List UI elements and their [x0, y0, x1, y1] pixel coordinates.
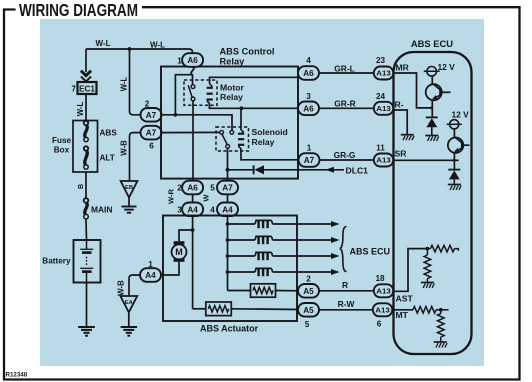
motor relay dashed box [184, 80, 217, 105]
wire motor relay coil to A6-4 [210, 77, 299, 84]
svg-text:5: 5 [305, 320, 310, 329]
node junction W-L rail [128, 47, 132, 51]
ABS control relay box [161, 67, 298, 179]
svg-text:ABS ECU: ABS ECU [411, 38, 453, 49]
svg-text:A6: A6 [187, 184, 198, 193]
pin 2 label A7 [145, 100, 150, 109]
connector A7 pin 1 [299, 153, 320, 167]
svg-text:Solenoid: Solenoid [252, 127, 288, 137]
svg-text:23: 23 [376, 56, 386, 65]
wire R-W row [319, 309, 374, 311]
transistor Q1 [426, 84, 451, 117]
arrow L4 to ECU [331, 269, 340, 275]
label W-L left [96, 39, 111, 48]
ground point EB triangle [121, 181, 138, 206]
svg-text:R-: R- [395, 100, 404, 110]
connector A13 pin 6 [373, 303, 393, 316]
wire R- to ground [394, 110, 408, 134]
ground R4 [421, 283, 434, 289]
connector A6 pin 4 [298, 66, 319, 80]
svg-text:A4: A4 [222, 205, 233, 214]
label W-R vertical [167, 188, 176, 204]
label GR-G [334, 150, 356, 160]
pin 5 label A7-5 [210, 184, 215, 193]
solenoid relay coil [238, 130, 244, 148]
brace ABS ECU arrows [340, 227, 347, 272]
wire solenoid coil to A6-3 junction [240, 109, 242, 130]
connector A4 pin 3 [182, 203, 203, 217]
transistor Q2 [448, 138, 470, 170]
svg-text:W: W [202, 194, 211, 202]
pin 3 label A6-3 [306, 92, 311, 101]
resistor R4 vertical [424, 249, 431, 282]
label W-L rail vertical [119, 76, 128, 91]
svg-text:Battery: Battery [42, 256, 71, 265]
battery cells [80, 240, 93, 283]
label W-B vertical upper [119, 140, 128, 156]
arrow from DLC1 [326, 167, 335, 173]
wire diode to DLC1 [264, 169, 344, 171]
connector A7 pin 5 [217, 181, 238, 195]
svg-text:12 V: 12 V [452, 110, 470, 120]
svg-text:1: 1 [177, 57, 182, 66]
pin 2 label A5-2 [306, 275, 311, 284]
pin 6 label A7 [149, 142, 154, 151]
label GR-L [334, 63, 354, 73]
label B vertical [78, 184, 85, 189]
svg-text:B: B [78, 184, 85, 189]
svg-text:R: R [342, 280, 348, 290]
svg-text:GR-G: GR-G [334, 150, 356, 160]
svg-text:A7: A7 [304, 156, 315, 165]
arrow L3 to ECU [331, 253, 340, 259]
svg-text:A6: A6 [303, 104, 314, 113]
label Motor Relay [220, 83, 245, 103]
wire MR to Q1 emitter [394, 73, 434, 109]
connector A5 pin 2 [298, 284, 319, 298]
ground battery [78, 327, 95, 336]
svg-text:EB: EB [125, 185, 133, 191]
wire diode branch [228, 169, 253, 171]
wire A4-4 rail down [227, 216, 229, 291]
svg-text:A4: A4 [187, 205, 198, 214]
label GR-R [334, 98, 355, 108]
wire motor switch to A6-2 [192, 101, 194, 181]
figure number R12348 [6, 372, 28, 379]
ground Q2 diode [448, 185, 461, 191]
label ABS ECU brace [350, 246, 391, 256]
pin 18 label [375, 274, 385, 283]
svg-text:2: 2 [177, 184, 182, 193]
svg-text:Relay: Relay [220, 57, 246, 67]
svg-text:ALT: ALT [100, 154, 115, 163]
ground EA [121, 327, 138, 336]
supply 12V Q1 [424, 67, 440, 77]
wire A6-2 to A4-3 [192, 194, 194, 202]
label W vertical [202, 194, 211, 202]
motor relay switch [188, 85, 195, 101]
pin 11 label [376, 144, 385, 153]
svg-text:A13: A13 [376, 104, 391, 113]
label R- [395, 100, 404, 110]
fuse MAIN [84, 198, 89, 219]
svg-text:4: 4 [210, 206, 215, 215]
pin 4 label A6-4 [306, 56, 311, 65]
wire rail to resistor R2 [193, 308, 206, 310]
pin 4 label A4-4 [210, 206, 215, 215]
svg-text:MT: MT [396, 310, 409, 320]
wire A7 pin6 to EB ground [130, 133, 141, 181]
diagram blue background [40, 19, 484, 366]
wire A4-1 to EA ground [129, 275, 141, 296]
connector A4 pin 4 [217, 203, 238, 217]
wire squiggle below A6-1 [191, 67, 194, 75]
svg-text:W-L: W-L [76, 101, 85, 116]
fuse ALT [84, 146, 88, 169]
svg-text:MAIN: MAIN [91, 205, 112, 215]
svg-text:A7: A7 [222, 184, 233, 193]
wire A7-6 to solenoid switch [161, 131, 220, 133]
resistor R2 boxed [206, 302, 232, 316]
wire GR-G [320, 159, 375, 161]
label SR [395, 149, 408, 159]
connector arrow into EC1 [81, 71, 91, 82]
connector A7 pin 2 [141, 108, 162, 122]
svg-text:W-R: W-R [167, 188, 176, 204]
connector A13 pin 23 [374, 67, 394, 80]
label MAIN [91, 205, 112, 215]
svg-text:6: 6 [149, 142, 154, 151]
svg-text:MR: MR [396, 63, 410, 73]
pin 1 label A4-1 [148, 260, 153, 269]
pin 3 label A4-3 [177, 206, 182, 215]
connector EC1 pin 7 [72, 82, 97, 94]
connector A13 pin 11 [374, 154, 394, 167]
diode D2 Q1 emitter [426, 117, 438, 134]
wire MAIN to battery [85, 219, 88, 240]
svg-text:W-L: W-L [150, 41, 165, 50]
wire branch to motor [179, 230, 193, 241]
connector A13 pin 24 [374, 102, 394, 115]
arrow L2 to ECU [331, 237, 340, 243]
label ABS fuse [100, 129, 118, 138]
svg-text:R12348: R12348 [6, 372, 28, 379]
svg-text:Relay: Relay [252, 137, 275, 147]
battery box outline [74, 240, 101, 283]
label ABS ECU top [411, 38, 453, 49]
svg-text:W-L: W-L [96, 39, 111, 48]
svg-text:ABS Actuator: ABS Actuator [200, 324, 259, 334]
svg-text:A13: A13 [375, 306, 390, 315]
svg-text:6: 6 [377, 320, 382, 329]
svg-text:12 V: 12 V [438, 62, 456, 72]
connector A7 pin 6 [141, 126, 162, 140]
wire A7-5 to A4-4 [227, 194, 229, 202]
label W-L vertical [76, 101, 85, 116]
wire A7-2 to solenoid switch [161, 115, 232, 131]
label DLC1 [346, 166, 369, 176]
wire SR to Q2 emitter [394, 159, 459, 162]
svg-text:A13: A13 [376, 156, 391, 165]
svg-text:A5: A5 [303, 287, 314, 296]
label ABS Actuator [200, 324, 259, 334]
svg-text:Relay: Relay [220, 92, 243, 102]
label ABS Control Relay [220, 47, 275, 67]
svg-text:A13: A13 [376, 69, 391, 78]
svg-text:DLC1: DLC1 [346, 166, 369, 176]
svg-text:GR-L: GR-L [334, 63, 354, 73]
svg-text:A13: A13 [376, 287, 391, 296]
svg-text:M: M [175, 247, 183, 257]
diode D1 [254, 165, 264, 174]
wire MT row [394, 309, 414, 311]
pin 1 label A6 [177, 57, 182, 66]
svg-text:1: 1 [307, 144, 312, 153]
wire R2 to A5-5 [231, 308, 298, 311]
wire R1 to A5-2 [276, 290, 299, 292]
connector A6 pin 1 [182, 53, 203, 67]
motor M1 [172, 241, 187, 262]
solenoid coil L4 row [226, 268, 332, 276]
connector A6 pin 2 [182, 181, 203, 195]
solenoid coil L1 row [226, 220, 332, 228]
label MT [396, 310, 409, 320]
svg-text:A7: A7 [146, 129, 157, 138]
svg-text:3: 3 [306, 92, 311, 101]
ground Q1 diode [425, 136, 438, 142]
label W-B vertical lower [116, 280, 125, 296]
pin 6 label [377, 320, 382, 329]
svg-text:W-B: W-B [119, 140, 128, 156]
resistor R5 horizontal [413, 307, 449, 314]
label Fuse Box [52, 136, 72, 155]
wire GR-R [319, 107, 374, 109]
supply 12V Q2 [447, 120, 462, 129]
resistor R6 vertical [438, 310, 445, 342]
wire solenoid coil to A7-1 [241, 148, 299, 160]
label ALT fuse [100, 154, 115, 163]
svg-text:ABS: ABS [100, 129, 118, 138]
svg-text:4: 4 [306, 56, 311, 65]
svg-text:A6: A6 [303, 69, 314, 78]
svg-text:11: 11 [376, 144, 385, 153]
svg-text:W-B: W-B [116, 280, 125, 296]
pin 1 label A7-1 [307, 144, 312, 153]
svg-text:A7: A7 [146, 111, 157, 120]
svg-text:18: 18 [375, 274, 385, 283]
wire motor relay coil to A6-3 row [209, 103, 297, 110]
svg-text:Motor: Motor [220, 83, 245, 93]
wire 12V to Q1 [431, 76, 433, 85]
fuse box outline [73, 121, 98, 173]
wire A4-3 rail down [191, 216, 195, 309]
svg-text:2: 2 [306, 275, 311, 284]
connector A6 pin 3 [298, 102, 319, 116]
wire GR-L [319, 72, 374, 74]
wire EC1 to fuse box [85, 94, 87, 121]
motor relay coil [207, 84, 213, 103]
wire W-L top horizontal [86, 49, 193, 53]
connector A13 pin 18 [374, 284, 394, 297]
wire W-L rail to A7 pin2 [130, 49, 141, 115]
svg-text:EC1: EC1 [79, 85, 96, 94]
svg-text:R-W: R-W [338, 299, 355, 309]
wire AST riser [394, 247, 430, 292]
ground point EA triangle [120, 296, 137, 327]
resistor R1 boxed [251, 284, 276, 297]
svg-text:ABS ECU: ABS ECU [350, 246, 391, 256]
ground R- [401, 135, 414, 141]
wire battery to ground [86, 283, 88, 328]
label 12 V Q1 [438, 62, 456, 72]
solenoid relay switch [220, 130, 234, 148]
label Battery [42, 256, 71, 265]
wire motor to A4-1 [161, 262, 179, 275]
svg-text:Fuse: Fuse [52, 136, 72, 145]
wire rail to resistor R1 [228, 290, 251, 292]
connector A4 pin 1 [140, 268, 161, 282]
svg-text:A4: A4 [145, 271, 156, 280]
svg-text:7: 7 [72, 85, 77, 94]
svg-text:SR: SR [395, 149, 408, 159]
resistor R3 horizontal [427, 245, 458, 252]
wire 12V to Q2 [453, 129, 455, 138]
svg-text:3: 3 [177, 206, 182, 215]
svg-text:W-L: W-L [119, 76, 128, 91]
pin 23 label [376, 56, 386, 65]
svg-text:WIRING DIAGRAM: WIRING DIAGRAM [19, 0, 138, 20]
label Solenoid Relay [252, 127, 288, 147]
wire A6-1 branch to switch and A7-2 rail [174, 75, 193, 117]
title WIRING DIAGRAM [19, 0, 138, 20]
solenoid coil L2 row [226, 236, 332, 244]
wire R row [319, 290, 374, 292]
pin 2 label A6-2 [177, 184, 182, 193]
wire solenoid switch to A7-5 [226, 148, 230, 181]
ground R6 [434, 342, 447, 348]
svg-text:EA: EA [125, 300, 134, 306]
label R [342, 280, 348, 290]
solenoid coil L3 row [226, 252, 332, 260]
label MR [396, 63, 410, 73]
svg-text:Box: Box [54, 146, 70, 155]
label W-L right [150, 41, 165, 50]
label 12 V Q2 [452, 110, 470, 120]
svg-text:1: 1 [148, 260, 153, 269]
svg-text:24: 24 [376, 92, 386, 101]
connector A5 pin 5 [298, 303, 319, 317]
fuse ABS [84, 121, 88, 142]
ground EB [122, 207, 137, 213]
svg-text:AST: AST [396, 294, 414, 304]
svg-text:A6: A6 [187, 56, 198, 65]
label AST [396, 294, 414, 304]
label R-W [338, 299, 355, 309]
arrow L1 to ECU [331, 221, 340, 227]
wire fuse box to MAIN fuse [85, 172, 87, 199]
diode D3 Q2 emitter [448, 170, 460, 184]
svg-text:ABS Control: ABS Control [220, 47, 275, 57]
svg-text:GR-R: GR-R [334, 98, 355, 108]
pin 24 label [376, 92, 386, 101]
pin 5 label A5-5 [305, 320, 310, 329]
ABS actuator box [163, 216, 297, 322]
solenoid relay dashed box [216, 127, 249, 151]
svg-text:2: 2 [145, 100, 150, 109]
svg-text:A5: A5 [303, 306, 314, 315]
svg-text:5: 5 [210, 184, 215, 193]
wire drop to EC1 [85, 49, 87, 72]
ABS ECU box [394, 52, 472, 354]
